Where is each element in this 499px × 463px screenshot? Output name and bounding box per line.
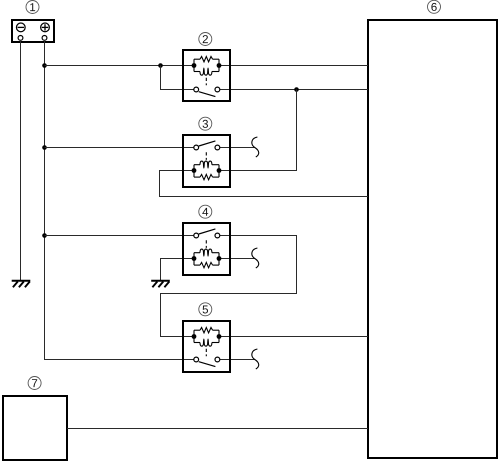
- wire battery negative to ground: [20, 40, 22, 281]
- junction bus-to-unit3: [42, 145, 47, 150]
- continuation squiggle at unit3 switch: [252, 137, 259, 157]
- component box 5: [183, 321, 230, 372]
- wire unit5 right terminal to box6: [219, 336, 368, 338]
- dashed linkage in unit 3: [205, 152, 207, 160]
- wire drop to unit2 switch: [161, 66, 194, 90]
- dashed linkage in unit 4: [205, 240, 207, 248]
- label 6: [428, 0, 441, 13]
- wire box7 to box6: [67, 428, 368, 430]
- resistor (lower branch) in unit 4: [194, 262, 219, 267]
- wire bus to unit2 resistor left terminal: [45, 65, 195, 67]
- label 1: [26, 1, 39, 14]
- wire bus to unit4 switch left: [45, 235, 194, 237]
- switch contacts of unit 2: [194, 87, 220, 97]
- component box 3: [183, 135, 230, 187]
- box 7: [3, 396, 67, 460]
- branch stubs and terminal dots of unit 3: [192, 165, 222, 177]
- junction node above unit3 return: [294, 87, 299, 92]
- wire unit3 switch right to continuation: [220, 147, 255, 149]
- wire unit5 switch right to continuation: [220, 359, 255, 361]
- junction bus-to-unit4: [42, 233, 47, 238]
- wire unit2 resistor right terminal to box6: [219, 65, 368, 67]
- breaker coil (upper branch) in unit 4: [194, 249, 219, 256]
- switch contacts of unit 3: [194, 141, 220, 150]
- wire unit2 switch right to box6: [220, 89, 368, 91]
- dashed linkage in unit 5: [205, 349, 207, 356]
- ground (battery negative): [12, 281, 31, 288]
- component box 4: [183, 223, 230, 275]
- wire from junction down to unit3 right terminal: [219, 90, 297, 171]
- label 3: [199, 117, 212, 130]
- ground (unit4): [151, 281, 170, 288]
- branch stubs and terminal dots of unit 5: [192, 330, 222, 342]
- component box 2: [183, 50, 230, 101]
- label 7: [28, 377, 41, 390]
- switch contacts of unit 4: [194, 229, 220, 238]
- wire unit4 switch right looping to unit5 left terminal: [161, 236, 297, 337]
- resistor (upper branch) in unit 2: [194, 57, 219, 62]
- wire bus to unit3 switch left: [45, 147, 194, 149]
- wire unit4 left terminal to ground: [161, 259, 195, 281]
- continuation squiggle at unit5 switch: [252, 349, 259, 369]
- breaker coil (upper branch) in unit 3: [194, 161, 219, 168]
- resistor (lower branch) in unit 3: [194, 174, 219, 179]
- resistor (upper branch) in unit 5: [194, 328, 219, 333]
- junction feed of unit2 switch: [158, 63, 163, 68]
- switch contacts of unit 5: [194, 357, 220, 367]
- ECU box 6: [368, 20, 497, 458]
- label 4: [199, 205, 212, 218]
- breaker coil (lower branch) in unit 2: [194, 68, 219, 75]
- label 5: [199, 303, 212, 316]
- wire unit3 left terminal loop to box6: [160, 171, 369, 197]
- breaker coil (lower branch) in unit 5: [194, 339, 219, 346]
- continuation squiggle at unit4: [252, 248, 259, 268]
- wire battery positive bus: [45, 40, 194, 360]
- dashed linkage in unit 2: [205, 78, 207, 85]
- branch stubs and terminal dots of unit 4: [192, 253, 222, 265]
- label 2: [199, 33, 212, 46]
- battery unit 1: [12, 20, 54, 42]
- branch stubs and terminal dots of unit 2: [192, 59, 222, 71]
- junction bus-to-unit2: [42, 63, 47, 68]
- wire unit4 right terminal to continuation: [219, 258, 255, 260]
